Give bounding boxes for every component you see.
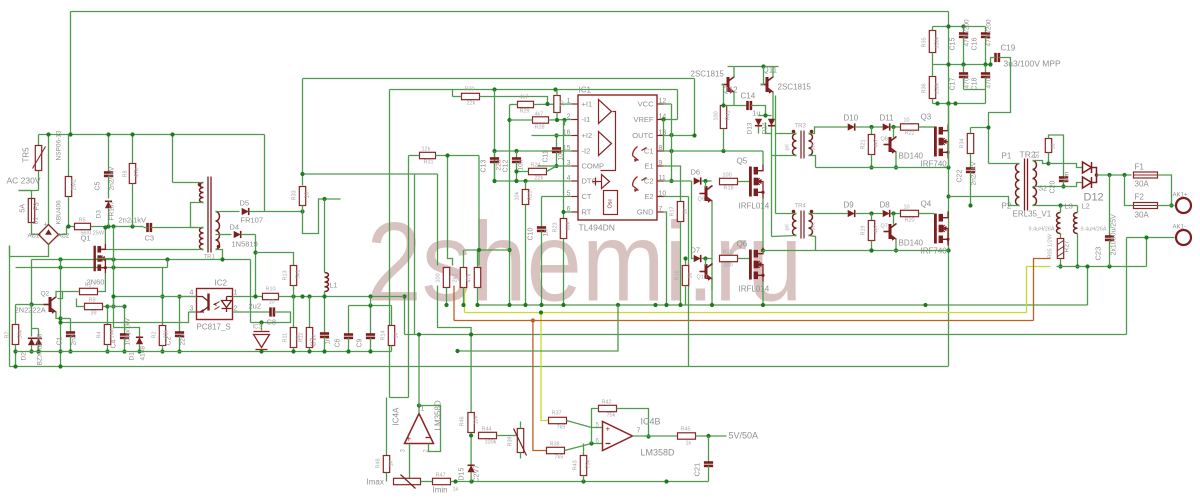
winding polarity dot	[810, 130, 814, 134]
wire sense orange	[454, 320, 1034, 322]
wire	[677, 90, 679, 120]
mosfet Q4 IRF740	[934, 214, 943, 244]
wire to P1	[989, 58, 1011, 164]
wire	[139, 345, 141, 352]
capacitor C15	[959, 34, 968, 37]
wire	[565, 444, 603, 451]
transformer TR2 primary	[1016, 164, 1020, 206]
diode D11	[883, 123, 890, 130]
svg-text:IC2: IC2	[215, 279, 228, 288]
wire	[9, 246, 11, 257]
junction	[29, 349, 33, 353]
zener D15	[468, 465, 475, 472]
junction	[507, 118, 511, 122]
transformer TR1 secondary	[216, 212, 220, 250]
wire	[738, 258, 750, 260]
resistor R13	[290, 266, 296, 286]
svg-text:1N5819: 1N5819	[232, 240, 258, 249]
junction	[514, 169, 518, 173]
wire	[448, 156, 453, 266]
junction	[869, 248, 873, 252]
transistor Q11 2SC1815	[761, 77, 774, 93]
transistor Q7 BD140	[884, 224, 897, 240]
wire	[391, 306, 393, 326]
capacitor C11	[552, 149, 561, 152]
connector AK1-	[1176, 230, 1191, 245]
transformer TR1 primary 1	[200, 183, 204, 203]
junction yellow	[539, 310, 543, 314]
op-amp IC IC1 TL494DN	[578, 95, 657, 220]
wire	[680, 222, 682, 306]
wire gate Q1	[97, 227, 114, 259]
wire	[470, 433, 472, 465]
wire	[809, 156, 816, 168]
svg-text:R21: R21	[861, 139, 867, 149]
wire	[477, 250, 479, 268]
svg-text:R47: R47	[436, 473, 446, 479]
junction	[653, 303, 657, 307]
pin 8 C1	[657, 150, 664, 152]
diode D14	[768, 119, 775, 126]
pin 2 -I1	[572, 119, 579, 121]
svg-text:100: 100	[723, 173, 732, 179]
junction	[58, 257, 62, 261]
svg-text:R44: R44	[482, 427, 492, 433]
svg-text:Q10: Q10	[697, 275, 707, 281]
wire	[705, 181, 707, 188]
wire	[970, 154, 972, 169]
junction	[554, 133, 558, 137]
svg-text:R18: R18	[724, 186, 734, 192]
diode D3	[105, 201, 112, 208]
junction	[661, 117, 665, 121]
junction	[507, 248, 511, 252]
wire	[771, 127, 773, 134]
junction	[417, 332, 421, 336]
wire	[733, 92, 735, 106]
wire	[520, 422, 522, 429]
inductor L2	[1074, 213, 1078, 234]
svg-text:R41: R41	[726, 110, 732, 120]
svg-text:2n2: 2n2	[71, 334, 78, 345]
resistor R32	[443, 268, 449, 288]
svg-text:GND: GND	[637, 208, 654, 217]
junction	[692, 133, 696, 137]
wire	[932, 65, 934, 77]
junction	[946, 101, 950, 105]
svg-text:Q6: Q6	[737, 240, 748, 249]
svg-text:FR107: FR107	[241, 216, 264, 225]
svg-text:R42: R42	[602, 400, 612, 406]
wire	[762, 251, 764, 254]
svg-text:2n2/1kV: 2n2/1kV	[971, 161, 978, 186]
capacitor C6	[344, 335, 353, 338]
wire	[692, 181, 694, 259]
svg-text:12k: 12k	[422, 147, 431, 153]
pin 12 VCC	[657, 103, 664, 105]
junction	[259, 349, 263, 353]
resistor R9	[85, 303, 103, 309]
junction	[253, 250, 257, 254]
op-amp IC4B LM358D	[603, 422, 633, 451]
wire	[70, 319, 72, 333]
svg-text:30A: 30A	[1135, 180, 1150, 189]
svg-text:2M2: 2M2	[72, 178, 78, 190]
wire	[409, 444, 411, 482]
svg-text:OUTC: OUTC	[632, 131, 654, 140]
junction	[891, 211, 895, 215]
wire	[132, 184, 134, 227]
resistor R22	[901, 124, 919, 130]
wire C2 row	[664, 180, 692, 182]
junction	[1058, 203, 1062, 207]
wire	[932, 27, 934, 31]
svg-text:1: 1	[234, 290, 238, 297]
wire	[114, 328, 140, 337]
svg-text:100p/1kV: 100p/1kV	[125, 317, 132, 345]
wire	[162, 346, 164, 352]
wire	[895, 152, 897, 168]
wire	[9, 246, 11, 367]
svg-text:F2: F2	[1135, 193, 1145, 202]
wire	[895, 239, 897, 251]
svg-text:D10: D10	[844, 114, 859, 123]
resistor R35	[929, 31, 935, 53]
wire	[58, 292, 80, 299]
junction	[307, 349, 311, 353]
wire sense yellow	[464, 286, 466, 313]
diode D7	[694, 255, 701, 262]
wire out minus bus	[1057, 266, 1147, 268]
wire	[701, 258, 712, 260]
wire	[370, 306, 372, 335]
wire	[751, 106, 766, 116]
svg-text:2SC1815: 2SC1815	[778, 83, 812, 92]
pin 10 E2	[657, 196, 664, 198]
wire	[124, 338, 126, 352]
wire	[408, 156, 410, 398]
svg-text:C11: C11	[543, 150, 550, 162]
resistor R28	[533, 117, 549, 123]
wire bulk rail	[948, 12, 950, 367]
junction	[703, 179, 707, 183]
svg-text:R1: R1	[85, 283, 92, 289]
wire	[309, 348, 311, 352]
junction	[869, 125, 873, 129]
svg-text:C23: C23	[1094, 247, 1103, 261]
svg-text:C21: C21	[693, 463, 702, 477]
svg-text:pri: pri	[785, 144, 791, 150]
junction	[66, 224, 70, 228]
transistor Q9	[700, 186, 713, 202]
junction	[616, 303, 620, 307]
junction	[475, 303, 479, 307]
wire	[249, 211, 303, 213]
wire	[107, 345, 109, 352]
junction	[368, 303, 372, 307]
wire	[438, 286, 472, 413]
junction	[545, 102, 549, 106]
resistor R19	[868, 221, 874, 241]
resistor R29	[518, 101, 534, 107]
wire	[871, 241, 873, 251]
junction	[477, 248, 481, 252]
wire	[56, 292, 63, 298]
wire row267	[16, 267, 168, 269]
resistor	[263, 293, 279, 299]
svg-text:22u: 22u	[496, 159, 503, 170]
wire pin15 row	[495, 150, 572, 152]
wire	[696, 435, 727, 437]
resistor R1	[80, 288, 98, 294]
resistor R8	[129, 164, 135, 184]
wire	[478, 156, 480, 266]
fuse F3	[28, 199, 34, 223]
resistor R24	[529, 168, 547, 174]
transistor Q8 BD140	[884, 137, 897, 153]
svg-text:IRFL014: IRFL014	[739, 202, 770, 211]
junction	[891, 125, 895, 129]
wire	[446, 288, 448, 306]
wire	[1146, 238, 1148, 267]
junction	[445, 153, 449, 157]
junction	[322, 294, 326, 298]
svg-text:Imin: Imin	[433, 486, 448, 495]
junction	[307, 294, 311, 298]
svg-text:7k5: 7k5	[555, 455, 564, 461]
wire	[985, 37, 987, 65]
wire	[516, 151, 518, 159]
junction	[492, 179, 496, 183]
resistor R37	[549, 417, 567, 423]
wire	[775, 134, 777, 214]
wire	[772, 236, 797, 237]
wire	[971, 127, 989, 129]
wire	[177, 227, 197, 229]
resistor R47	[433, 478, 451, 484]
svg-text:2SC1815: 2SC1815	[691, 70, 725, 79]
svg-text:ERL35_V1: ERL35_V1	[1013, 210, 1052, 219]
svg-text:Q3: Q3	[921, 113, 932, 122]
svg-text:R5: R5	[79, 218, 86, 224]
wire	[324, 199, 326, 273]
wire	[556, 113, 558, 121]
pin 5 CT	[572, 196, 579, 198]
pin 13 OUTC	[657, 135, 664, 137]
wire	[418, 335, 420, 406]
svg-text:4k7: 4k7	[874, 225, 880, 234]
capacitor C14	[748, 101, 751, 110]
svg-text:+I2: +I2	[582, 131, 593, 140]
wire	[556, 136, 558, 149]
wire	[293, 297, 295, 328]
diode D1	[136, 337, 143, 344]
junction	[111, 294, 115, 298]
wire	[970, 172, 972, 206]
wire	[132, 135, 134, 164]
junction	[669, 179, 673, 183]
winding polarity dot	[792, 210, 796, 214]
svg-text:C6: C6	[335, 338, 342, 347]
svg-text:56k: 56k	[18, 329, 24, 338]
svg-text:10: 10	[904, 118, 910, 124]
wire bridge plus	[48, 135, 50, 225]
wire	[724, 105, 747, 107]
junction	[122, 349, 126, 353]
svg-text:39: 39	[91, 311, 97, 317]
wire	[871, 127, 873, 135]
optocoupler IC2 PC817_S	[197, 289, 233, 320]
junction	[523, 303, 527, 307]
svg-text:470u: 470u	[964, 74, 971, 89]
wire	[414, 174, 416, 335]
junction	[763, 113, 767, 117]
svg-text:L3: L3	[1065, 202, 1073, 211]
wire	[303, 199, 341, 234]
wire	[61, 312, 189, 323]
diode D8	[883, 210, 890, 217]
junction	[170, 132, 174, 136]
junction	[678, 303, 682, 307]
junction	[761, 248, 765, 252]
wire	[390, 397, 409, 399]
svg-text:10: 10	[904, 205, 910, 211]
wire	[108, 306, 125, 308]
svg-text:E1: E1	[644, 162, 653, 171]
capacitor C5	[104, 173, 113, 176]
wire	[771, 134, 773, 237]
winding polarity dot	[198, 183, 202, 187]
junction	[664, 479, 668, 483]
svg-text:C5: C5	[95, 181, 102, 190]
wire	[963, 27, 965, 34]
capacitor C10	[537, 228, 546, 231]
wire	[509, 105, 511, 306]
wire	[711, 279, 713, 291]
wire S1	[1033, 161, 1049, 164]
wire	[816, 167, 949, 169]
transformer TR4 primary	[793, 214, 797, 236]
wire	[809, 213, 848, 215]
svg-text:R7: R7	[5, 331, 11, 338]
junction	[923, 303, 927, 307]
junction	[469, 332, 473, 336]
wire	[70, 336, 72, 352]
resistor R18	[720, 178, 738, 184]
svg-text:5A: 5A	[20, 204, 27, 213]
junction	[664, 303, 668, 307]
svg-text:D2: D2	[21, 352, 28, 361]
dual diode D12	[1083, 162, 1097, 188]
junction	[539, 303, 543, 307]
junction	[130, 224, 134, 228]
wire	[855, 126, 883, 128]
IC1 internal comparators	[593, 100, 618, 215]
wire	[38, 329, 40, 337]
wire	[970, 128, 972, 134]
wire	[1060, 206, 1062, 213]
junction	[988, 62, 992, 66]
zener BZX55C18	[35, 338, 42, 345]
capacitor C17	[959, 74, 968, 77]
connector AK1+	[1176, 198, 1191, 213]
wire base Q2	[32, 304, 44, 306]
wire	[525, 205, 527, 306]
svg-text:470u: 470u	[986, 74, 993, 89]
junction	[300, 209, 304, 213]
pin 15 -I2	[572, 150, 579, 152]
diode D10	[848, 123, 855, 130]
svg-text:D8: D8	[880, 201, 891, 210]
wire	[694, 79, 696, 136]
wire	[556, 152, 558, 166]
svg-text:D1: D1	[129, 352, 136, 361]
resistor R43	[580, 456, 586, 476]
junction	[703, 256, 707, 260]
wire to Q1 drain	[101, 249, 204, 251]
wire	[1060, 234, 1062, 239]
junction	[589, 441, 593, 445]
junction	[553, 87, 557, 91]
wire	[386, 473, 388, 482]
junction	[106, 224, 110, 228]
junction	[58, 320, 62, 324]
wire	[1127, 237, 1175, 239]
wire	[985, 90, 987, 104]
junction	[36, 349, 40, 353]
wire ground bus	[16, 351, 392, 353]
svg-text:1n: 1n	[543, 229, 550, 237]
junction	[160, 349, 164, 353]
wire	[671, 104, 673, 181]
junction	[368, 349, 372, 353]
wire	[32, 223, 41, 235]
wire	[497, 435, 518, 437]
wire	[151, 227, 177, 229]
svg-text:+: +	[407, 435, 412, 444]
svg-text:L2: L2	[1082, 202, 1090, 211]
wire pin16 row	[532, 135, 572, 137]
fuse F1	[1134, 172, 1158, 178]
junction	[514, 149, 518, 153]
wire	[517, 171, 529, 173]
junction	[894, 165, 898, 169]
junction	[177, 294, 181, 298]
junction	[111, 265, 115, 269]
resistor R4	[104, 325, 110, 345]
wire	[216, 211, 240, 213]
capacitor C7	[320, 334, 329, 337]
svg-text:R14: R14	[381, 330, 387, 340]
wire	[1049, 164, 1083, 168]
junction	[105, 349, 109, 353]
wire	[1125, 175, 1134, 206]
wire	[617, 409, 649, 437]
junction	[507, 303, 511, 307]
capacitor C19	[996, 53, 999, 62]
capacitor C3	[148, 223, 151, 232]
wire cap mid	[933, 64, 991, 66]
junction	[105, 304, 109, 308]
transistor Q12 2SC1815	[722, 77, 735, 93]
wire	[563, 120, 565, 219]
svg-text:10n: 10n	[518, 159, 525, 170]
svg-text:150k: 150k	[935, 36, 941, 48]
junction	[869, 211, 873, 215]
svg-text:VREF: VREF	[633, 115, 653, 124]
wire	[893, 214, 895, 225]
wire	[733, 67, 735, 78]
